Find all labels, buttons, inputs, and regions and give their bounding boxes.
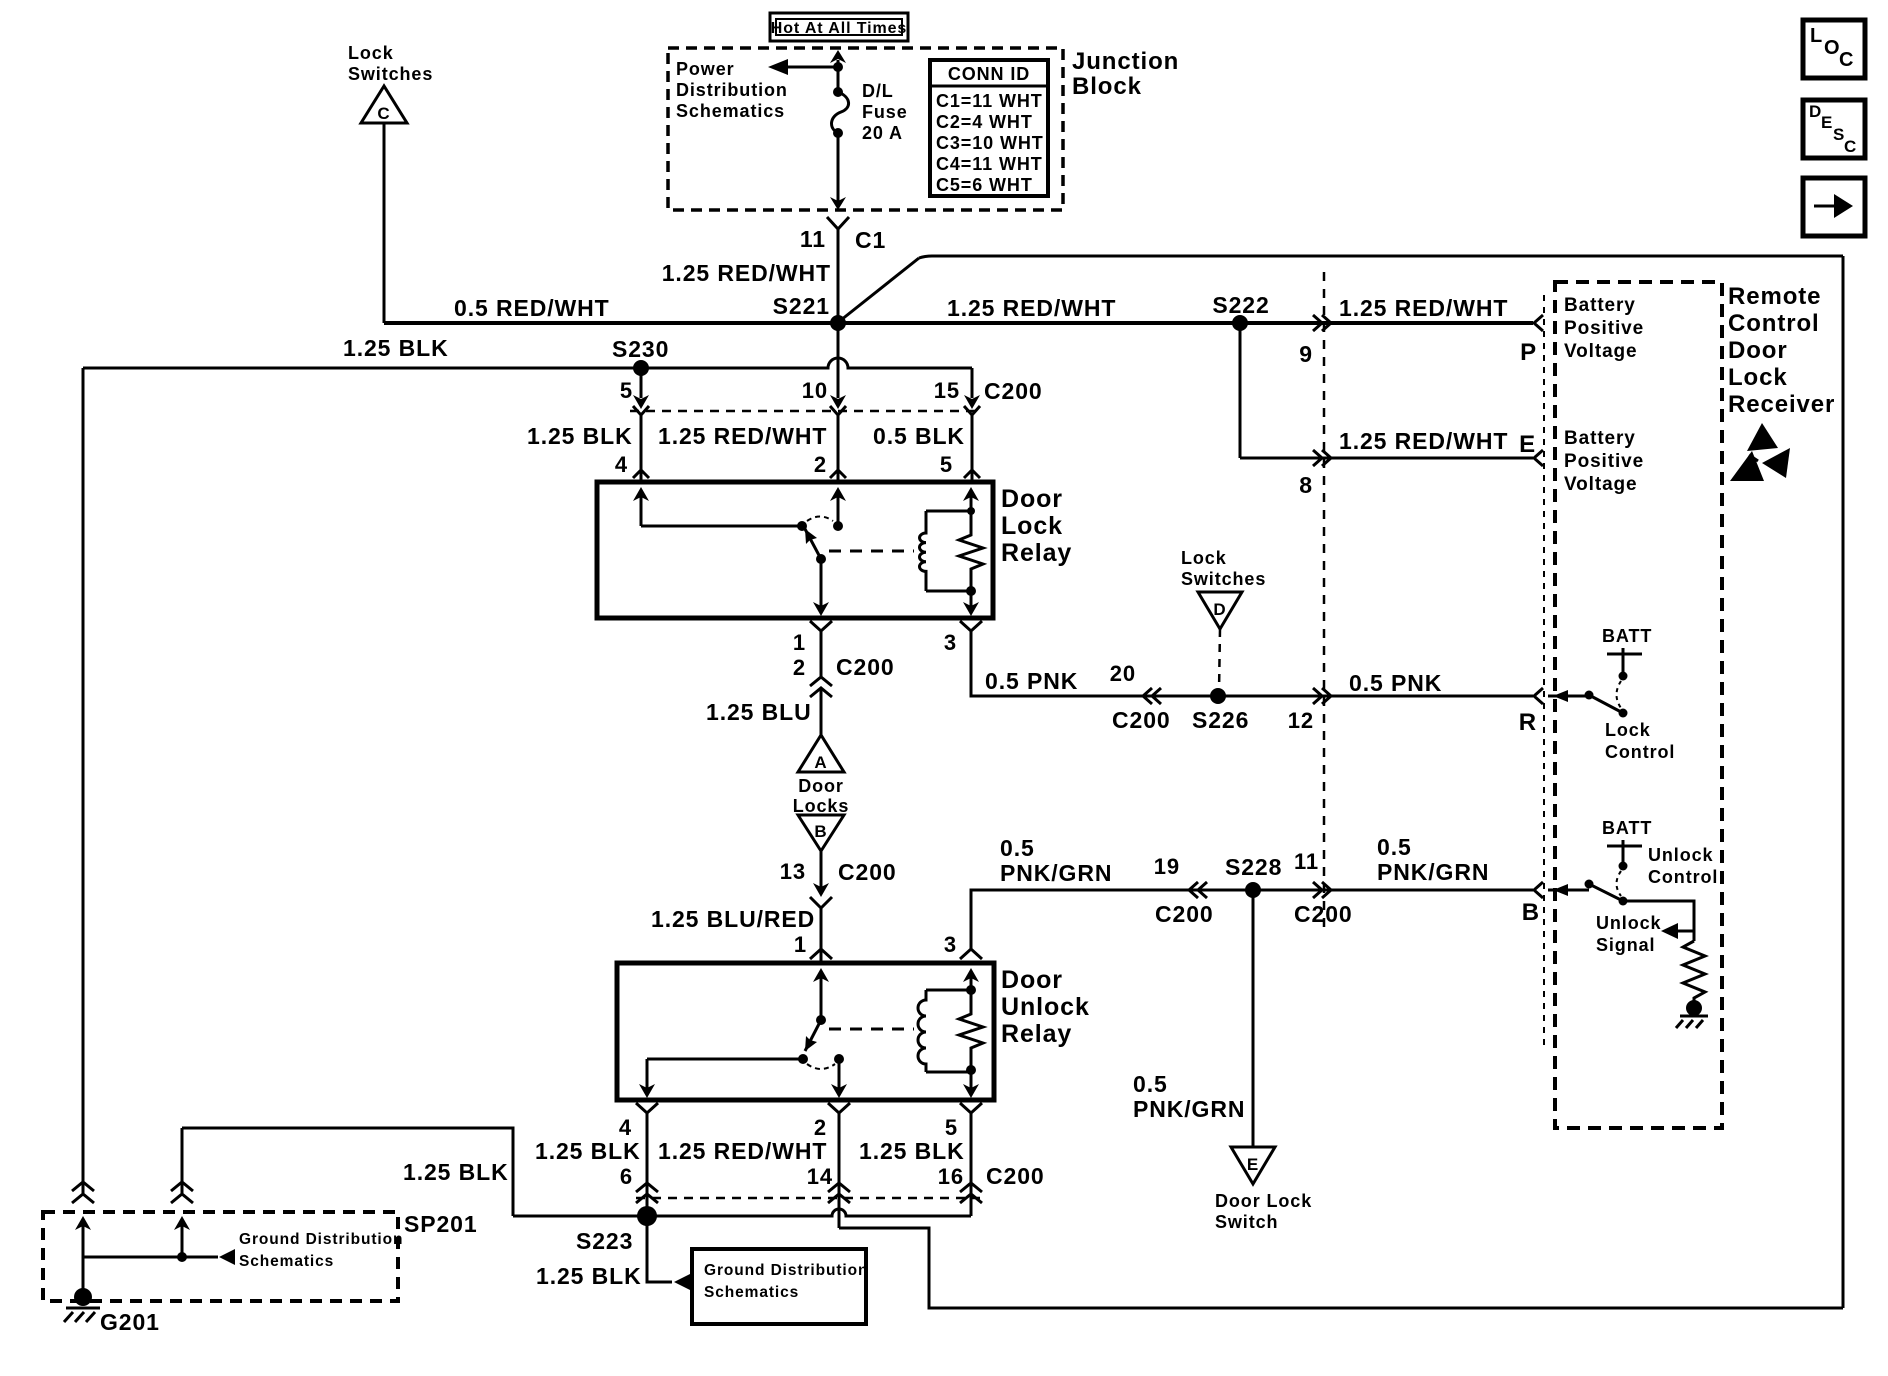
svg-text:Hot At All Times: Hot At All Times <box>771 20 908 37</box>
svg-text:0.5 RED/WHT: 0.5 RED/WHT <box>454 295 610 321</box>
svg-text:5: 5 <box>940 452 953 477</box>
wire S228 down to door lock switch E <box>1252 890 1255 1147</box>
svg-text:Schematics: Schematics <box>704 1284 799 1301</box>
svg-text:D/L: D/L <box>862 81 894 101</box>
BATT label (unlock) <box>1602 818 1652 838</box>
remote control door lock receiver dashed box <box>1555 282 1722 1128</box>
wire branch S223 left and up <box>182 1128 513 1216</box>
wire label 1.25 BLK (pin 6) <box>535 1138 641 1164</box>
svg-text:PNK/GRN: PNK/GRN <box>1000 860 1112 886</box>
svg-text:Receiver: Receiver <box>1728 391 1835 418</box>
svg-text:B: B <box>814 822 827 841</box>
svg-text:BATT: BATT <box>1602 626 1652 646</box>
svg-text:Battery: Battery <box>1564 295 1636 316</box>
top wire y=256 to right edge <box>919 256 1843 258</box>
pin 1 label <box>793 630 806 655</box>
wire S223 to ground distribution arrow <box>647 1216 690 1290</box>
resistor (unlock signal pull) <box>1683 941 1705 1002</box>
svg-text:SP201: SP201 <box>404 1211 478 1237</box>
wire pin 15 down to C200 <box>964 368 980 415</box>
lock switches label (D) <box>1181 548 1266 589</box>
connector C1 label <box>855 227 886 253</box>
wire unlock relay pin 3 to receiver B <box>971 890 1533 950</box>
pin 6 label <box>620 1164 633 1189</box>
svg-text:2: 2 <box>814 452 827 477</box>
wire relay to C200 pin 1/2 <box>820 631 823 677</box>
svg-text:Door: Door <box>1001 966 1063 994</box>
connector C200 dashed line (upper) <box>630 410 978 413</box>
svg-text:Switches: Switches <box>348 64 433 84</box>
wire label 1.25 BLK (S223) <box>536 1263 642 1289</box>
svg-text:14: 14 <box>807 1164 833 1189</box>
C200 label (inline) <box>836 654 895 680</box>
lock relay NC contact wire <box>641 521 807 531</box>
svg-text:1.25 BLK: 1.25 BLK <box>403 1159 509 1185</box>
ground G201 <box>64 1288 160 1335</box>
chevron below unlock relay pin 2 <box>828 1103 850 1113</box>
svg-text:4: 4 <box>619 1115 632 1140</box>
remote control door lock receiver label <box>1728 283 1835 418</box>
pin 4 label (unlock) <box>619 1115 632 1140</box>
unlock relay armature dashed link <box>829 1028 914 1031</box>
svg-text:1.25 BLU/RED: 1.25 BLU/RED <box>651 906 815 932</box>
svg-text:12: 12 <box>1288 708 1314 733</box>
svg-text:Lock: Lock <box>1181 548 1227 568</box>
wire label 0.5 PNK/GRN (S228 down) <box>1133 1071 1245 1122</box>
C200 label (at 13) <box>838 859 897 885</box>
wire pin 14 through C200 <box>828 1113 850 1228</box>
svg-text:Door: Door <box>1728 337 1788 364</box>
svg-text:Battery: Battery <box>1564 428 1636 449</box>
svg-text:Unlock: Unlock <box>1001 993 1090 1021</box>
ground bus wire y=1216 with hop over pin14 wire <box>513 1209 971 1216</box>
C200 label (pin 19) <box>1155 901 1214 927</box>
lock relay pin 3 exit wire <box>963 591 979 616</box>
svg-text:6: 6 <box>620 1164 633 1189</box>
svg-text:Unlock: Unlock <box>1648 845 1714 865</box>
node S222 <box>1212 292 1269 331</box>
unlock control label <box>1648 845 1718 887</box>
triangle A door locks <box>798 735 844 772</box>
lock relay pin 5 entry arrow <box>963 487 979 511</box>
svg-text:Junction: Junction <box>1072 48 1179 75</box>
SP201 second entry arrow <box>174 1216 190 1262</box>
svg-text:Distribution: Distribution <box>676 80 788 100</box>
svg-text:C200: C200 <box>984 378 1043 404</box>
pin 12 label <box>1288 708 1314 733</box>
svg-text:Power: Power <box>676 59 735 79</box>
svg-text:BATT: BATT <box>1602 818 1652 838</box>
svg-text:L: L <box>1810 25 1823 47</box>
triangle B door locks <box>798 815 844 851</box>
lock relay armature dashed link <box>829 550 914 553</box>
wire C200 to lock relay pin 5 <box>964 415 980 480</box>
triangle D lock switches <box>1198 592 1242 629</box>
svg-text:Lock: Lock <box>1001 512 1063 540</box>
terminal R label <box>1519 709 1537 736</box>
connector chevron pin 9 <box>1313 315 1331 331</box>
ESD sensitive device symbol <box>1730 423 1790 481</box>
terminal P female chevron <box>1534 315 1543 331</box>
svg-text:Unlock: Unlock <box>1596 913 1662 933</box>
triangle E door lock switch <box>1231 1147 1275 1184</box>
lock relay pin 4 entry arrow <box>633 487 649 526</box>
svg-text:1: 1 <box>794 932 807 957</box>
svg-text:S226: S226 <box>1192 707 1249 733</box>
wire C200 to unlock relay pin 1 <box>810 908 832 961</box>
svg-text:C200: C200 <box>986 1163 1045 1189</box>
BATT label (lock) <box>1602 626 1652 646</box>
inline C200 double chevron <box>810 677 832 697</box>
connector C1 chevron below junction block <box>827 217 849 229</box>
LOC box <box>1803 20 1865 78</box>
svg-text:C200: C200 <box>1155 901 1214 927</box>
wire pin 10 down to C200 <box>830 323 846 415</box>
double chevron above SP201 (x=182) <box>171 1182 193 1203</box>
svg-text:0.5: 0.5 <box>1000 835 1035 861</box>
svg-text:C1=11 WHT: C1=11 WHT <box>936 91 1043 111</box>
C200 label (pin 20) <box>1112 707 1171 733</box>
receiver connector fine dashed line <box>1543 295 1545 1050</box>
svg-text:1.25 RED/WHT: 1.25 RED/WHT <box>658 1138 827 1164</box>
svg-text:20: 20 <box>1110 661 1136 686</box>
dashed wire D to S226 <box>1219 629 1220 692</box>
svg-text:C2=4 WHT: C2=4 WHT <box>936 112 1033 132</box>
wire label 1.25 RED/WHT (above S221) <box>662 260 831 286</box>
svg-text:C4=11 WHT: C4=11 WHT <box>936 154 1043 174</box>
svg-text:Schematics: Schematics <box>239 1253 334 1270</box>
pin 15 label <box>934 378 960 403</box>
pin 11 label <box>800 226 826 252</box>
wire label 0.5 BLK (pin 5) <box>873 423 965 449</box>
svg-text:1.25 BLK: 1.25 BLK <box>535 1138 641 1164</box>
svg-text:C5=6 WHT: C5=6 WHT <box>936 175 1033 195</box>
node S221 <box>773 293 846 331</box>
door unlock relay box <box>617 963 994 1100</box>
svg-text:1.25 RED/WHT: 1.25 RED/WHT <box>1339 295 1508 321</box>
unlock relay coil L2 <box>918 990 971 1072</box>
svg-text:Control: Control <box>1648 867 1718 887</box>
terminal B label <box>1522 899 1540 926</box>
lock relay pin 2 entry arrow <box>830 487 846 531</box>
svg-text:Voltage: Voltage <box>1564 474 1638 495</box>
pin 5 label (above C200) <box>620 378 633 403</box>
wire down to SP201 (x=182) <box>181 1128 184 1193</box>
connector C200 chevron pin 19 <box>1189 882 1207 898</box>
svg-text:11: 11 <box>800 226 826 252</box>
svg-text:R: R <box>1519 709 1537 736</box>
wire C200 to lock relay pin 4 <box>633 415 649 480</box>
svg-text:C200: C200 <box>1112 707 1171 733</box>
wire label 1.25 BLK (left of S230) <box>343 335 449 361</box>
lock switches label (C) <box>348 43 433 84</box>
lock control label <box>1605 720 1675 762</box>
main wire y=323 from C to receiver P <box>384 321 1533 325</box>
svg-text:0.5: 0.5 <box>1133 1071 1168 1097</box>
node S223 <box>576 1206 657 1254</box>
wire label 1.25 BLU/RED <box>651 906 815 932</box>
left wire down to SP201 <box>82 368 85 1193</box>
svg-text:Door Lock: Door Lock <box>1215 1191 1312 1211</box>
door lock relay label <box>1001 485 1072 567</box>
svg-text:1.25 RED/WHT: 1.25 RED/WHT <box>1339 428 1508 454</box>
svg-text:1.25 BLK: 1.25 BLK <box>527 423 633 449</box>
svg-text:1.25 RED/WHT: 1.25 RED/WHT <box>662 260 831 286</box>
wire S230 horizontal y=368 with hop over S221 wire <box>83 358 972 368</box>
unlock relay NO contact wire down <box>831 1054 847 1098</box>
connector dashed boundary line (receiver harness) <box>1323 272 1326 930</box>
connector chevron pin 12 <box>1313 688 1331 704</box>
svg-text:Ground Distribution: Ground Distribution <box>239 1231 403 1248</box>
svg-text:Signal: Signal <box>1596 935 1655 955</box>
svg-text:C3=10 WHT: C3=10 WHT <box>936 133 1044 153</box>
wire triangle B down to C200 <box>810 851 832 908</box>
right edge wire down <box>1842 256 1845 1308</box>
svg-text:1: 1 <box>793 630 806 655</box>
pin 5 label (lower) <box>940 452 953 477</box>
diagonal wire S221 to top line <box>841 258 919 320</box>
svg-text:D: D <box>1213 600 1226 619</box>
pin 8 label <box>1299 472 1313 498</box>
node S230 <box>612 336 669 376</box>
unlock relay coil resistor <box>959 985 983 1075</box>
wire label 0.5 PNK (right) <box>1349 670 1442 696</box>
svg-text:Door: Door <box>1001 485 1063 513</box>
svg-text:Schematics: Schematics <box>676 101 785 121</box>
label box: Hot At All Times <box>770 13 908 41</box>
svg-text:5: 5 <box>945 1115 958 1140</box>
CONN ID table <box>930 60 1048 196</box>
svg-text:0.5 BLK: 0.5 BLK <box>873 423 965 449</box>
wire label 1.25 RED/WHT (pin 2) <box>658 423 827 449</box>
svg-text:4: 4 <box>615 452 628 477</box>
pin 2 label <box>793 655 806 680</box>
svg-text:C200: C200 <box>836 654 895 680</box>
svg-text:3: 3 <box>944 932 957 957</box>
unlock signal label <box>1596 913 1662 955</box>
svg-text:Switches: Switches <box>1181 569 1266 589</box>
svg-text:Control: Control <box>1728 310 1820 337</box>
wire label 1.25 BLK (SP201 branch) <box>403 1159 509 1185</box>
pin 20 label <box>1110 661 1136 686</box>
unlock relay pin 1 entry arrow <box>813 968 829 1025</box>
unlock signal output wire <box>1623 901 1694 941</box>
terminal B female chevron <box>1534 882 1543 898</box>
wire pin 16 through C200 <box>960 1113 982 1216</box>
wire C1 to S221 <box>837 229 840 322</box>
wire S230 pin 5 down to C200 <box>633 368 649 415</box>
svg-text:S228: S228 <box>1225 854 1282 880</box>
pin 1 label (unlock) <box>794 932 807 957</box>
svg-text:0.5: 0.5 <box>1377 834 1412 860</box>
chevron below unlock relay pin 4 <box>636 1103 658 1113</box>
pin 13 label <box>780 859 806 884</box>
fuse F1 D/L 20A <box>830 50 849 210</box>
pin 4 label <box>615 452 628 477</box>
svg-text:Door: Door <box>798 776 844 796</box>
unlock relay contact travel dashed arc <box>807 1064 835 1069</box>
svg-text:P: P <box>1520 339 1537 366</box>
next-page arrow box <box>1803 178 1865 236</box>
lock relay coil L1 <box>920 511 972 591</box>
node S226 <box>1192 688 1249 733</box>
C200 label (pin 11) <box>1294 901 1353 927</box>
wire label 1.25 RED/WHT (to E) <box>1339 428 1508 454</box>
door unlock relay label <box>1001 966 1090 1048</box>
svg-text:S222: S222 <box>1212 292 1269 318</box>
connector chevron pin 11 <box>1313 882 1331 898</box>
connector C200 chevron pin 20 <box>1143 688 1161 704</box>
svg-text:1.25 RED/WHT: 1.25 RED/WHT <box>658 423 827 449</box>
double chevron above SP201 (x=83) <box>72 1182 94 1203</box>
splice pack SP201 dashed box <box>43 1212 398 1301</box>
svg-text:A: A <box>814 753 827 772</box>
svg-text:3: 3 <box>944 630 957 655</box>
svg-text:S221: S221 <box>773 293 830 319</box>
junction block label <box>1072 48 1179 100</box>
svg-text:Lock: Lock <box>1728 364 1788 391</box>
svg-text:0.5 PNK: 0.5 PNK <box>1349 670 1442 696</box>
svg-text:13: 13 <box>780 859 806 884</box>
svg-text:Lock: Lock <box>348 43 394 63</box>
pin 16 label <box>938 1164 964 1189</box>
pin 19 label <box>1154 854 1180 879</box>
SP201 label <box>404 1211 478 1237</box>
chevron below relay pin 3 <box>960 621 982 631</box>
svg-text:C: C <box>1839 49 1854 71</box>
pin 2 label (unlock) <box>814 1115 827 1140</box>
svg-text:Lock: Lock <box>1605 720 1651 740</box>
arrow to power distribution <box>768 59 843 75</box>
wire label 0.5 PNK/GRN (right) <box>1377 834 1489 885</box>
svg-text:10: 10 <box>802 378 828 403</box>
svg-text:Switch: Switch <box>1215 1212 1278 1232</box>
svg-text:Relay: Relay <box>1001 1020 1072 1048</box>
terminal E female chevron <box>1534 450 1543 466</box>
wire label 0.5 PNK/GRN (left) <box>1000 835 1112 886</box>
C200 label (upper) <box>984 378 1043 404</box>
svg-text:PNK/GRN: PNK/GRN <box>1377 859 1489 885</box>
svg-text:Control: Control <box>1605 742 1675 762</box>
svg-text:8: 8 <box>1299 472 1313 498</box>
pin 9 label <box>1299 341 1313 367</box>
svg-text:11: 11 <box>1294 849 1319 874</box>
wire label 1.25 RED/WHT (right of S221) <box>947 295 1116 321</box>
C200 label (lower) <box>986 1163 1045 1189</box>
junction block dashed box <box>668 48 1063 210</box>
connector chevron pin 8 <box>1313 450 1331 466</box>
chevron below unlock relay pin 5 <box>960 1103 982 1113</box>
svg-text:2: 2 <box>793 655 806 680</box>
SP201 left entry arrow and wire to G201 <box>75 1216 91 1298</box>
ground (receiver internal) <box>1676 1000 1708 1028</box>
wire pin 14 lower run to right edge <box>839 1228 1843 1308</box>
svg-text:1.25 BLK: 1.25 BLK <box>859 1138 965 1164</box>
svg-text:Positive: Positive <box>1564 451 1644 472</box>
svg-text:C: C <box>1844 137 1857 156</box>
svg-text:S223: S223 <box>576 1228 633 1254</box>
svg-text:1.25 BLK: 1.25 BLK <box>343 335 449 361</box>
svg-text:1.25 BLK: 1.25 BLK <box>536 1263 642 1289</box>
lock relay coil resistor <box>959 507 983 596</box>
terminal P label <box>1520 339 1537 366</box>
door lock relay box <box>597 482 993 618</box>
ground distribution schematics label (in SP201) <box>239 1231 403 1270</box>
wire lock relay pin 3 to receiver R <box>971 631 1533 696</box>
wire label 1.25 RED/WHT (pin 14) <box>658 1138 827 1164</box>
unlock control switch blade and contacts <box>1548 880 1628 906</box>
wire S222 down <box>1239 323 1242 458</box>
svg-text:Block: Block <box>1072 73 1142 100</box>
svg-text:C1: C1 <box>855 227 886 253</box>
terminal E label <box>1519 431 1536 458</box>
unlock relay NC contact wire <box>647 1054 808 1064</box>
wire S222 branch to E <box>1240 457 1533 460</box>
wire label 1.25 BLK (pin 4) <box>527 423 633 449</box>
connector C200 dashed line (lower) <box>636 1197 980 1200</box>
svg-text:C200: C200 <box>838 859 897 885</box>
svg-text:C200: C200 <box>1294 901 1353 927</box>
unlock signal arrow <box>1661 923 1694 939</box>
svg-text:B: B <box>1522 899 1540 926</box>
svg-text:5: 5 <box>620 378 633 403</box>
unlock relay pin 5 exit wire <box>963 1070 979 1098</box>
battery feed symbol (lock) <box>1607 648 1642 681</box>
svg-text:Voltage: Voltage <box>1564 341 1638 362</box>
svg-text:2: 2 <box>814 1115 827 1140</box>
battery positive voltage label (P) <box>1564 295 1644 362</box>
wire label 1.25 RED/WHT (to P) <box>1339 295 1508 321</box>
pin 2 label <box>814 452 827 477</box>
wire label 1.25 BLU <box>706 699 812 725</box>
pin 10 label <box>802 378 828 403</box>
pin 5 label (unlock) <box>945 1115 958 1140</box>
svg-text:15: 15 <box>934 378 960 403</box>
pin 11 label <box>1294 849 1319 874</box>
svg-text:PNK/GRN: PNK/GRN <box>1133 1096 1245 1122</box>
unlock relay switch blade <box>805 1020 821 1051</box>
svg-text:1.25 BLU: 1.25 BLU <box>706 699 812 725</box>
wire C200 to triangle A <box>820 688 823 735</box>
svg-text:Ground Distribution: Ground Distribution <box>704 1262 868 1279</box>
wire pin 6 through C200 <box>636 1113 658 1216</box>
svg-text:Fuse: Fuse <box>862 102 908 122</box>
svg-text:E: E <box>1821 113 1833 132</box>
svg-text:C: C <box>377 104 390 123</box>
power distribution schematics label <box>676 59 788 121</box>
lock control switch blade and contacts <box>1548 690 1628 718</box>
node S228 <box>1225 854 1282 898</box>
chevron below relay pin 1 <box>810 621 832 631</box>
svg-text:S230: S230 <box>612 336 669 362</box>
svg-text:Positive: Positive <box>1564 318 1644 339</box>
pin 3 label <box>944 630 957 655</box>
fuse value label D/L Fuse 20 A <box>862 81 908 143</box>
unlock relay pin 3 entry arrow <box>963 968 979 990</box>
door locks label <box>793 776 850 816</box>
battery feed symbol (unlock) <box>1607 840 1642 871</box>
wire label 0.5 PNK (left) <box>985 668 1078 694</box>
svg-text:E: E <box>1519 431 1536 458</box>
lock relay switch blade <box>805 529 826 564</box>
chevron above unlock relay pin 3 <box>960 949 982 959</box>
DESC box <box>1803 100 1865 158</box>
svg-text:19: 19 <box>1154 854 1180 879</box>
SP201 internal bus wire with arrow <box>83 1249 235 1265</box>
svg-text:E: E <box>1247 1155 1259 1174</box>
triangle C lock switches <box>361 86 407 123</box>
svg-text:9: 9 <box>1299 341 1313 367</box>
